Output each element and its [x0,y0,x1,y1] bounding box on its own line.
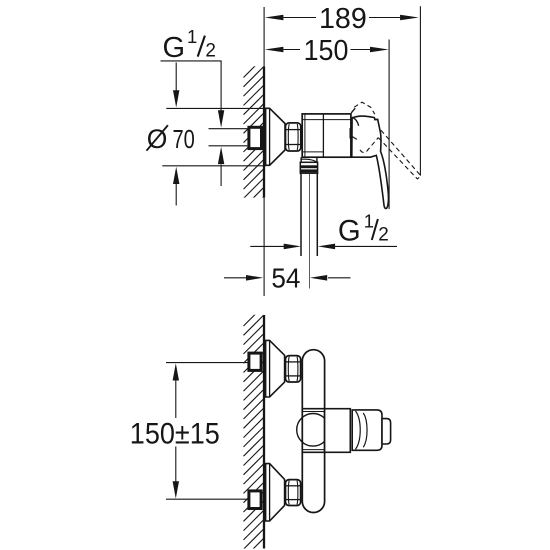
svg-text:54: 54 [271,263,300,294]
escutcheon (top view) [266,108,285,165]
arrow G1/2 down [218,110,224,127]
leader arrows G 1/2 outlet [250,244,397,250]
upper wall union square (bottom view) [249,353,261,370]
dimension 54 [224,275,351,281]
svg-text:70: 70 [173,124,195,154]
faucet body capsule (bottom view) [302,350,324,513]
upper union nut (bottom view) [286,356,301,382]
handle collar inner arc [352,117,359,126]
fraction slash (top G 1/2) [198,36,205,57]
label Ø70 [147,124,195,154]
label G 1/2 (inlet, top left) [163,26,216,64]
lower wall union square (bottom view) [249,491,261,509]
handle grip (bottom view) [352,410,382,450]
upper escutcheon (bottom view) [266,340,285,397]
dimension 150±15 [173,363,179,498]
fraction slash (outlet G 1/2) [372,219,378,240]
grip moulding arcs [356,411,361,449]
wall union square (top view) [249,127,262,148]
label G 1/2 (outlet) [338,210,389,247]
cartridge dome circle (bottom view) [297,414,330,447]
handle collar tick [352,137,357,140]
svg-text:G: G [338,215,361,248]
svg-text:G: G [163,32,186,64]
svg-text:1: 1 [364,210,374,231]
shower outlet pipe [301,173,317,256]
wall surface line (top view) [263,7,265,296]
shower outlet neck [300,157,317,162]
svg-text:189: 189 [319,3,367,35]
union nut (top view) [286,123,301,151]
escutcheon flange inner line [269,108,271,165]
svg-text:150: 150 [304,35,349,67]
lever handle raised position (dashed) [354,102,421,179]
handle tip (bottom view) [382,419,391,444]
dimension lines Ø70 [162,63,265,206]
leader line G 1/2 top [161,61,222,186]
handle knob solid edge [351,108,355,113]
dimension 189 [265,6,421,175]
svg-text:1: 1 [187,26,197,47]
arrow Ø70 up [173,167,179,184]
outlet pipe centre line [309,174,311,289]
diameter slash of Ø [147,125,168,151]
lower escutcheon (bottom view) [266,464,285,521]
wall hatching (bottom view) [244,306,264,550]
valve body (top view) [302,114,351,157]
cartridge dome edge [349,128,352,139]
extension line upper union (bottom view) [166,362,248,364]
lower union nut (bottom view) [286,480,301,506]
shower hose nut [300,162,317,173]
arrow Ø70 down [173,90,179,107]
wall hatching (top view) [244,57,264,217]
svg-text:150±15: 150±15 [130,417,220,450]
svg-text:2: 2 [378,225,389,246]
arrow G1/2 up [218,147,224,164]
G1/2 nipple lines (wall connection thread) [209,129,248,146]
extension line lower union (bottom view) [166,498,248,500]
svg-text:2: 2 [205,41,216,62]
wall surface line (bottom view) [263,315,265,549]
dimension 150 [265,40,389,210]
handle base (bottom view) [302,409,350,453]
lever handle (top view, closed position) [352,116,389,208]
